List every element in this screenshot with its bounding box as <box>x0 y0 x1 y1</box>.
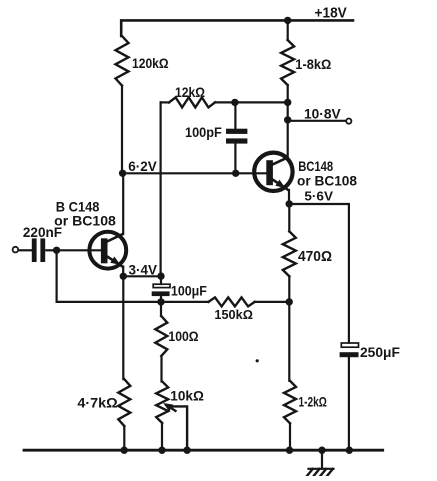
svg-text:470Ω: 470Ω <box>298 249 332 265</box>
svg-text:6·2V: 6·2V <box>128 159 157 174</box>
svg-text:3·4V: 3·4V <box>129 263 158 278</box>
svg-text:4·7kΩ: 4·7kΩ <box>77 396 117 411</box>
svg-text:100Ω: 100Ω <box>168 329 198 344</box>
svg-text:100μF: 100μF <box>171 284 207 299</box>
svg-text:120kΩ: 120kΩ <box>132 56 169 71</box>
svg-text:220nF: 220nF <box>23 225 62 240</box>
svg-text:or BC108: or BC108 <box>297 172 357 188</box>
svg-text:10kΩ: 10kΩ <box>170 387 204 403</box>
svg-text:+18V: +18V <box>315 6 348 22</box>
svg-text:1-2kΩ: 1-2kΩ <box>299 394 327 410</box>
svg-text:12kΩ: 12kΩ <box>175 85 205 100</box>
svg-text:100pF: 100pF <box>185 125 222 140</box>
svg-text:150kΩ: 150kΩ <box>214 307 253 322</box>
svg-text:250μF: 250μF <box>360 345 400 360</box>
svg-text:10·8V: 10·8V <box>304 106 341 121</box>
svg-text:or BC108: or BC108 <box>54 213 116 229</box>
svg-text:5·6V: 5·6V <box>304 188 333 203</box>
svg-text:1-8kΩ: 1-8kΩ <box>295 56 331 72</box>
